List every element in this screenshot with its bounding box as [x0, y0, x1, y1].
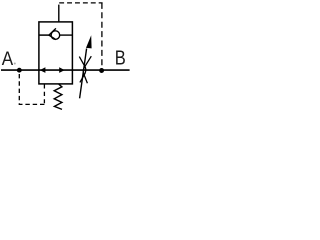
svg-text:A: A — [2, 48, 13, 70]
svg-text:B: B — [115, 47, 126, 69]
